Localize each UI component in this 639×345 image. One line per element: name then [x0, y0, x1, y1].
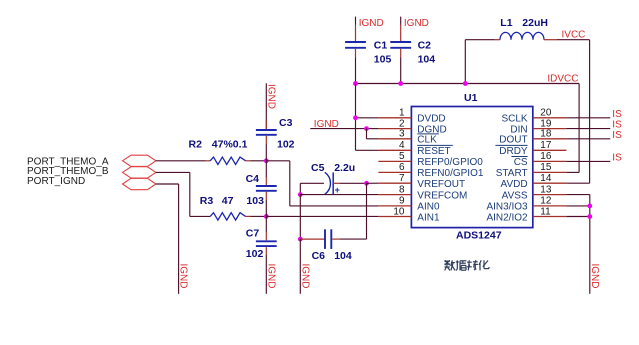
label 47%0.1 [212, 139, 248, 151]
label L1 [500, 17, 512, 29]
wire VREFOUT pin 7 [367, 182, 379, 184]
svg-text:IGND: IGND [178, 264, 189, 289]
label 47 [222, 195, 234, 207]
net label IDVCC [547, 74, 578, 85]
pin 11 stub [533, 216, 567, 218]
pin 13 stub [533, 194, 567, 196]
svg-text:47: 47 [222, 195, 234, 207]
inductor L1 [465, 32, 557, 39]
label 102 (C3) [277, 139, 295, 151]
svg-text:IS: IS [612, 152, 622, 163]
label PORT_THEMO_B [27, 166, 109, 177]
svg-text:5: 5 [399, 151, 405, 162]
svg-text:1: 1 [399, 108, 405, 119]
svg-text:IGND: IGND [299, 264, 310, 289]
wire AVSS pin 13 to IGND [566, 195, 589, 294]
pin 4 stub [378, 149, 411, 151]
wire net pin 16 [566, 160, 610, 162]
pin name DIN [510, 124, 527, 135]
wire C1 to bus [355, 58, 357, 84]
pin 3 stub [378, 138, 411, 140]
net label IS pin 20 [612, 109, 622, 120]
port PORT_THEMO_A symbol [123, 155, 156, 166]
svg-text:102: 102 [246, 248, 264, 260]
net label IS pin 18 [612, 130, 622, 141]
wire R2 node to AIN0 pin 9 [266, 161, 378, 206]
pin number 3 [399, 129, 405, 140]
pin number 20 [540, 108, 552, 119]
net label IGND C6 (rotated) [299, 264, 310, 289]
pin 5 stub [378, 160, 411, 162]
svg-text:20: 20 [540, 108, 552, 119]
wire C5 to VREFOUT pin 7 [340, 182, 367, 184]
pin 14 stub [533, 182, 567, 184]
pin number 18 [540, 129, 552, 140]
svg-text:VREFOUT: VREFOUT [417, 179, 465, 190]
wire pin8 node down to C6 [299, 195, 301, 240]
wire bus up to L1 [464, 40, 466, 84]
svg-text:AIN3/IO3: AIN3/IO3 [486, 202, 528, 213]
pin 12 stub [533, 205, 567, 207]
label ADS1247 [456, 229, 502, 241]
svg-text:18: 18 [540, 129, 552, 140]
svg-text:C4: C4 [246, 173, 260, 185]
svg-text:ADS1247: ADS1247 [456, 229, 502, 241]
svg-text:7: 7 [399, 173, 405, 184]
label C1 [374, 40, 388, 52]
net label IGND (DGND) [314, 119, 339, 130]
capacitor C5 (polarized) [325, 172, 340, 195]
junction pin12 [587, 204, 592, 209]
net label IS pin 19 [612, 120, 622, 131]
svg-text:DRDY: DRDY [499, 146, 528, 157]
pin name AVSS [502, 190, 528, 201]
wire AIN3/IO3 pin 12 [566, 205, 589, 207]
svg-text:14: 14 [540, 173, 552, 184]
svg-text:IS: IS [612, 109, 622, 120]
pin 7 stub [378, 182, 411, 184]
capacitor C4 [256, 161, 277, 217]
wire C5 left corner [300, 183, 324, 194]
pin name RESET [417, 145, 453, 157]
capacitor C1 [345, 25, 366, 58]
label C4 [246, 173, 260, 185]
pin number 6 [399, 162, 405, 173]
svg-text:IGND: IGND [359, 18, 384, 29]
pin name CLK [417, 134, 439, 146]
net label IGND right (rotated) [589, 264, 600, 289]
pin name START [496, 168, 528, 179]
pin number 12 [540, 196, 552, 207]
wire IDVCC bus [356, 83, 580, 85]
svg-text:IVCC: IVCC [562, 29, 586, 40]
label 102 (C7) [246, 248, 264, 260]
svg-text:REFP0/GPIO0: REFP0/GPIO0 [417, 157, 483, 168]
wire IGND stub above C1 [355, 17, 357, 25]
pin number 10 [393, 206, 405, 217]
svg-text:10: 10 [393, 206, 405, 217]
pin 16 stub [533, 160, 567, 162]
wire IGND stub above C3 [265, 83, 267, 91]
net label IGND (C1) [359, 18, 384, 29]
wire net pin 18 [566, 138, 610, 140]
wire to RESET pin 4 [356, 149, 379, 151]
svg-text:17: 17 [540, 140, 552, 151]
capacitor C7 [256, 216, 277, 293]
capacitor C2 [390, 25, 411, 58]
pin name REFN0/GPIO1 [417, 168, 484, 179]
pin name AIN2/IO2 [486, 212, 528, 223]
pin number 15 [540, 162, 552, 173]
net label IGND top C3 (rotated) [265, 84, 276, 109]
label 2.2u [334, 162, 355, 174]
pin name CS [511, 157, 528, 169]
svg-text:CLK: CLK [417, 135, 437, 146]
svg-text:C2: C2 [418, 40, 432, 52]
label C7 [246, 227, 260, 239]
svg-text:C3: C3 [279, 117, 293, 129]
pin name REFP0/GPIO0 [417, 157, 483, 168]
resistor R2 [206, 157, 251, 164]
pin name AIN3/IO3 [486, 202, 528, 213]
wire IDVCC to START pin 15 [566, 84, 579, 173]
junction R3 node [264, 214, 269, 219]
svg-text:AVSS: AVSS [502, 190, 528, 201]
pin 8 stub [378, 194, 411, 196]
svg-text:C1: C1 [374, 40, 388, 52]
junction bus-C2 [398, 81, 403, 86]
pin number 11 [540, 206, 551, 217]
svg-text:R2: R2 [189, 139, 203, 151]
label 103 (C4) [246, 195, 264, 207]
svg-text:AIN0: AIN0 [417, 202, 440, 213]
label 104 (C6) [334, 250, 352, 262]
junction C6 left [298, 237, 303, 242]
wire net pin 20 [566, 117, 610, 119]
port PORT_IGND symbol [123, 178, 156, 189]
svg-text:47%0.1: 47%0.1 [212, 139, 248, 151]
wire port B down [156, 172, 190, 216]
pin name DGND [417, 124, 446, 135]
pin 1 stub [378, 117, 411, 119]
svg-text:START: START [496, 168, 528, 179]
text 数据转化 [445, 260, 490, 270]
pin 15 stub [533, 171, 567, 173]
svg-text:AIN2/IO2: AIN2/IO2 [486, 212, 528, 223]
wire VREFCOM pin 8 [300, 194, 378, 196]
junction pin8 node [298, 192, 303, 197]
svg-text:U1: U1 [464, 92, 478, 104]
pin number 19 [540, 118, 552, 129]
label R2 [189, 139, 203, 151]
svg-text:4: 4 [399, 140, 405, 151]
svg-text:R3: R3 [200, 195, 214, 207]
pin name AVDD [501, 179, 528, 190]
svg-text:12: 12 [540, 196, 552, 207]
svg-text:2.2u: 2.2u [334, 162, 355, 174]
junction pin7 node [364, 181, 369, 186]
svg-text:DOUT: DOUT [499, 135, 527, 146]
svg-text:104: 104 [334, 250, 352, 262]
pin number 8 [399, 184, 405, 195]
pin 10 stub [378, 216, 411, 218]
svg-text:3: 3 [399, 129, 405, 140]
wire R2 to node [251, 160, 267, 162]
svg-text:IGND: IGND [404, 18, 429, 29]
junction bus-C1 [353, 81, 358, 86]
net label IGND C7 (rotated) [265, 264, 276, 289]
svg-text:105: 105 [374, 54, 392, 66]
wire IGND stub above C2 [400, 17, 402, 25]
label 104 [418, 54, 436, 66]
net label IVCC [562, 29, 586, 40]
label 22uH [522, 17, 548, 29]
pin number 13 [540, 184, 552, 195]
wire IGND to DGND pin 2 [310, 128, 378, 130]
wire VREF down to C6 [366, 183, 368, 239]
wire net pin 19 [566, 128, 610, 130]
svg-text:AVDD: AVDD [501, 179, 528, 190]
pin name VREFCOM [417, 190, 467, 201]
pin number 5 [399, 151, 405, 162]
svg-text:IS: IS [612, 130, 622, 141]
op-amp U1 ADS1247 body [411, 107, 532, 228]
svg-text:11: 11 [540, 206, 551, 217]
svg-text:RESET: RESET [417, 146, 450, 157]
svg-text:L1: L1 [500, 17, 512, 29]
net label IS pin 16 [612, 152, 622, 163]
svg-text:REFN0/GPIO1: REFN0/GPIO1 [417, 168, 484, 179]
pin name VREFOUT [417, 179, 465, 190]
label C5 [311, 162, 325, 174]
junction pin2 [364, 126, 369, 131]
pin number 2 [399, 118, 405, 129]
pin name AIN0 [417, 202, 440, 213]
pin number 4 [399, 140, 405, 151]
wire AIN2/IO2 pin 11 [566, 216, 589, 218]
wire port C down [156, 184, 179, 294]
label PORT_IGND [27, 176, 85, 187]
pin number 17 [540, 140, 552, 151]
label PORT_THEMO_A [27, 156, 109, 167]
label U1 [464, 92, 478, 104]
svg-text:15: 15 [540, 162, 552, 173]
svg-text:IGND: IGND [265, 264, 276, 289]
junction pin1 [353, 115, 358, 120]
wire DGND to CLK pin 3 [367, 129, 379, 139]
pin number 16 [540, 151, 552, 162]
svg-text:16: 16 [540, 151, 552, 162]
svg-text:9: 9 [399, 196, 405, 207]
wire IVCC to AVDD pin 14 [557, 40, 590, 184]
svg-text:VREFCOM: VREFCOM [417, 190, 467, 201]
label R3 [200, 195, 214, 207]
svg-text:102: 102 [277, 139, 295, 151]
pin 9 stub [378, 205, 411, 207]
pin 17 stub [533, 149, 567, 151]
wire port A to R2 [156, 160, 206, 162]
wire C3 to R2 node [265, 144, 267, 161]
svg-text:CS: CS [514, 157, 528, 168]
junction bus-L1 [463, 81, 468, 86]
net label IGND portC (rotated) [178, 264, 189, 289]
pin 6 stub [378, 171, 411, 173]
label C2 [418, 40, 432, 52]
svg-text:103: 103 [246, 195, 264, 207]
pin 20 stub [533, 117, 567, 119]
svg-text:C6: C6 [312, 250, 326, 262]
svg-text:DVDD: DVDD [417, 114, 445, 125]
pin 2 stub [378, 128, 411, 130]
svg-text:8: 8 [399, 184, 405, 195]
capacitor C6 [300, 229, 366, 249]
resistor R3 [190, 213, 251, 220]
pin name DVDD [417, 114, 445, 125]
svg-text:IDVCC: IDVCC [547, 74, 578, 85]
svg-text:C7: C7 [246, 227, 260, 239]
capacitor C3 [256, 91, 277, 144]
svg-text:AIN1: AIN1 [417, 212, 440, 223]
port PORT_THEMO_B symbol [123, 167, 156, 178]
pin number 14 [540, 173, 552, 184]
svg-text:+: + [335, 185, 340, 195]
svg-text:13: 13 [540, 184, 552, 195]
wire bus to DVDD pin 1 [356, 84, 379, 151]
svg-text:IGND: IGND [589, 264, 600, 289]
pin name SCLK [501, 114, 527, 125]
junction pin11 [587, 214, 592, 219]
pin 19 stub [533, 128, 567, 130]
svg-text:104: 104 [418, 54, 436, 66]
wire R3 to node [251, 215, 267, 217]
svg-text:PORT_IGND: PORT_IGND [27, 176, 85, 187]
pin number 1 [399, 108, 405, 119]
pin 18 stub [533, 138, 567, 140]
svg-text:22uH: 22uH [522, 17, 548, 29]
net label IGND (C2) [404, 18, 429, 29]
svg-text:IGND: IGND [265, 84, 276, 109]
pin name AIN1 [417, 212, 440, 223]
label 105 [374, 54, 392, 66]
junction R2 node [264, 158, 269, 163]
wire C2 to bus [400, 58, 402, 84]
svg-text:6: 6 [399, 162, 405, 173]
pin number 7 [399, 173, 405, 184]
svg-text:C5: C5 [311, 162, 325, 174]
label C6 [312, 250, 326, 262]
pin name DRDY [495, 145, 528, 157]
svg-text:SCLK: SCLK [501, 114, 527, 125]
wire R3 node to AIN1 pin 10 [266, 215, 378, 217]
wire C6 column to IGND [299, 239, 301, 294]
label C3 [279, 117, 293, 129]
pin number 9 [399, 196, 405, 207]
pin name DOUT [499, 135, 527, 146]
